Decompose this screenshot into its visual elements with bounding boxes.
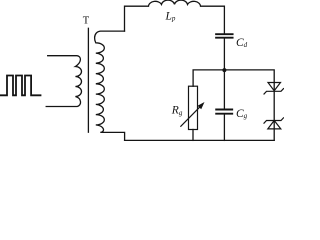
svg-text:Cd: Cd bbox=[236, 37, 248, 49]
svg-text:Cg: Cg bbox=[236, 108, 248, 120]
svg-text:Rg: Rg bbox=[171, 105, 183, 117]
svg-text:Lp: Lp bbox=[165, 11, 176, 23]
svg-text:T: T bbox=[83, 16, 90, 27]
